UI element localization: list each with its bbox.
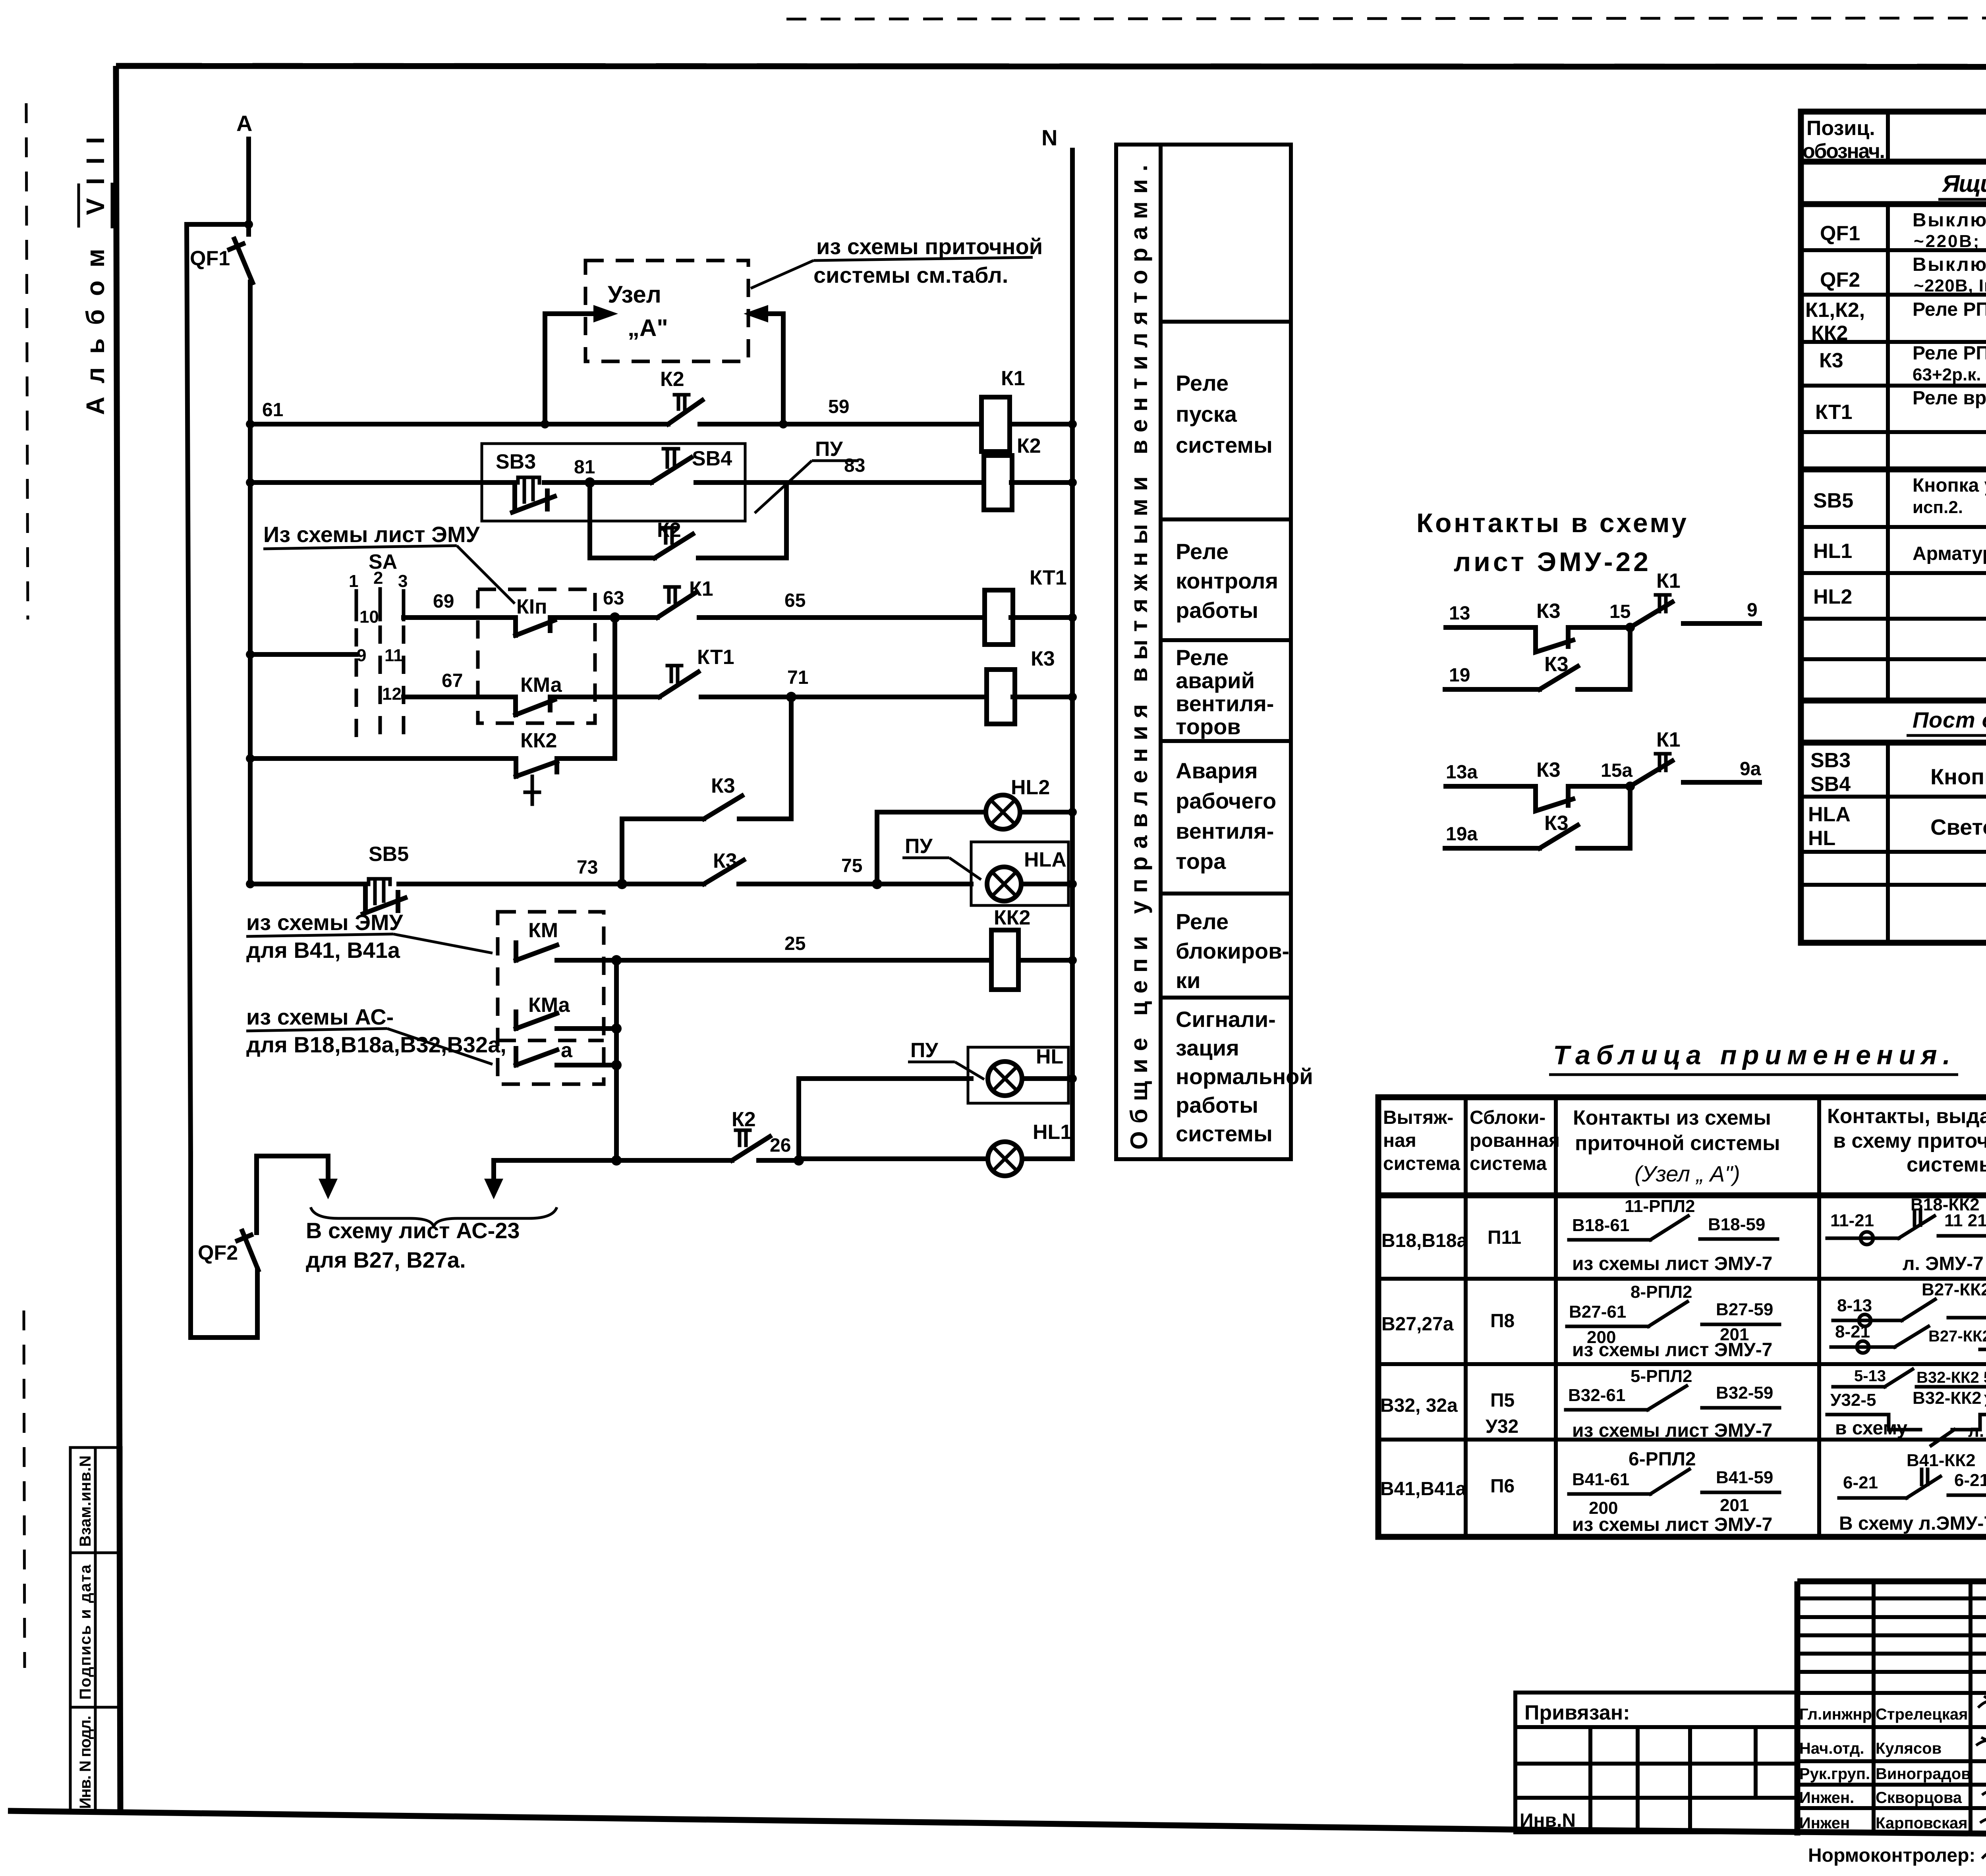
wire K3 bypass from node 71 (622, 697, 791, 884)
svg-text:К3: К3 (1536, 759, 1561, 782)
svg-text:л. ЭМУ-17: л. ЭМУ-17 (1968, 1421, 1986, 1441)
svg-text:Реле РП-256 , ~220В: Реле РП-256 , ~220В (1913, 299, 1986, 320)
relay coil K3 (987, 647, 1055, 724)
svg-text:К1,К2,: К1,К2, (1805, 299, 1865, 322)
svg-text:12: 12 (382, 684, 402, 704)
wire 9a (1683, 780, 1760, 785)
arrow down AC-23 left (319, 1179, 338, 1199)
svg-text:обознач.: обознач. (1802, 140, 1885, 163)
svg-text:блокиров-: блокиров- (1176, 938, 1289, 963)
contact K2 NO on row1 (660, 368, 702, 424)
contact KT1 NO row4 (659, 646, 734, 697)
wire phase A vertical (246, 139, 251, 234)
contact K1 NO row3 (657, 577, 713, 618)
svg-text:Реле: Реле (1176, 909, 1229, 934)
svg-text:исп.2.: исп.2. (1913, 498, 1963, 517)
contact a (516, 1039, 622, 1070)
svg-text:НLА: НLА (1808, 803, 1851, 826)
svg-text:Инжен: Инжен (1799, 1814, 1850, 1832)
svg-text:из схемы приточной: из схемы приточной (816, 234, 1043, 259)
contact KMa (516, 674, 562, 715)
svg-text:Скворцова: Скворцова (1876, 1789, 1962, 1807)
pushbutton SB5 NC (363, 843, 409, 914)
box rele avariy (1176, 645, 1274, 739)
wire row1 59 (246, 396, 1077, 428)
box KM dashed (498, 912, 604, 1084)
svg-text:Контакты, выдаваемые: Контакты, выдаваемые (1827, 1105, 1986, 1128)
wire QF2 to arrow (257, 1156, 328, 1233)
outer and main lines (1797, 1581, 1986, 1837)
svg-text:Привязан:: Привязан: (1524, 1701, 1630, 1724)
wire row3 69 (404, 588, 1077, 623)
svg-text:НL1: НL1 (1033, 1121, 1072, 1144)
svg-text:Ящик 18ЯВ (27ЯВ; 32ЯВ; 41ЯВ).: Ящик 18ЯВ (27ЯВ; 32ЯВ; 41ЯВ). (1942, 170, 1986, 197)
svg-text:В32, 32а: В32, 32а (1380, 1395, 1458, 1416)
wire 19 branch (1445, 687, 1540, 692)
box PU HLA (971, 842, 1068, 905)
lamp HLA (987, 848, 1077, 901)
svg-text:QF1: QF1 (1820, 222, 1860, 245)
svg-text:10: 10 (359, 607, 379, 627)
contact K2 NO row26 (732, 1108, 770, 1160)
privyazan box (1515, 1693, 1797, 1832)
box rele blokirovki (1176, 909, 1289, 993)
box PU HL (968, 1047, 1068, 1103)
svg-text:из схемы АС-: из схемы АС- (246, 1004, 394, 1029)
svg-text:Светосигнальная арматура: Светосигнальная арматура (1930, 814, 1986, 840)
svg-text:QF1: QF1 (190, 247, 230, 270)
svg-text:П6: П6 (1490, 1476, 1515, 1497)
box KP dashed (478, 589, 595, 723)
pushbutton SB3 NC (496, 450, 590, 512)
wire 13a (1446, 784, 1536, 789)
svg-text:рабочего: рабочего (1176, 788, 1276, 813)
main frame top (116, 66, 1986, 67)
svg-text:13а: 13а (1446, 762, 1478, 783)
svg-text:Кнопка управления КЕ-011УЗ: Кнопка управления КЕ-011УЗ (1913, 475, 1986, 496)
svg-text:201: 201 (1720, 1496, 1749, 1515)
contact KMa row (516, 994, 622, 1034)
svg-text:тора: тора (1176, 849, 1226, 874)
svg-text:системы: системы (1176, 432, 1273, 457)
contact K3 NO row73 (704, 849, 744, 884)
row B41 (1380, 1449, 1986, 1535)
svg-text:К2: К2 (732, 1108, 756, 1131)
svg-text:1: 1 (349, 571, 358, 591)
switch SA terminals (349, 550, 408, 741)
svg-text:рованная: рованная (1470, 1130, 1560, 1151)
svg-text:Инв.N: Инв.N (1520, 1810, 1576, 1831)
svg-text:65: 65 (784, 590, 806, 611)
svg-text:Реле РПУ1-362,: Реле РПУ1-362, (1913, 343, 1986, 364)
note iz shemy list EMU (263, 522, 515, 604)
svg-text:л. ЭМУ-7: л. ЭМУ-7 (1903, 1253, 1984, 1274)
svg-text:SВ4: SВ4 (1810, 773, 1851, 796)
svg-text:К1: К1 (1656, 569, 1681, 593)
svg-text:НL: НL (1808, 827, 1835, 850)
svg-text:приточной системы: приточной системы (1575, 1132, 1780, 1155)
svg-text:НL2: НL2 (1011, 776, 1050, 799)
svg-text:SВ5: SВ5 (1813, 489, 1853, 512)
APPTABLE (1378, 1040, 1986, 1537)
svg-text:В18-61: В18-61 (1572, 1216, 1629, 1235)
svg-text:аварий: аварий (1176, 668, 1255, 693)
EMU22 (1416, 508, 1761, 848)
svg-text:К3: К3 (1819, 349, 1843, 372)
svg-text:ПУ: ПУ (905, 835, 933, 858)
svg-text:Вытяж-: Вытяж- (1383, 1107, 1453, 1128)
svg-text:Контакты в схему: Контакты в схему (1416, 508, 1687, 538)
svg-text:а: а (561, 1039, 573, 1062)
svg-text:8-13: 8-13 (1837, 1296, 1872, 1315)
label PU leader HLA (902, 835, 981, 880)
svg-text:Позиц.: Позиц. (1806, 117, 1875, 140)
svg-text:В32-61: В32-61 (1568, 1386, 1625, 1405)
svg-text:пуска: пуска (1176, 401, 1237, 427)
svg-text:Кнопка управления: Кнопка управления (1930, 764, 1986, 789)
COLUMN (1116, 145, 1313, 1159)
svg-text:SВ4: SВ4 (692, 447, 732, 470)
box rele puska (1176, 371, 1273, 457)
note iz shemy AC (246, 1004, 506, 1064)
wire row26 to HL1 (799, 1156, 988, 1161)
svg-text:системы: системы (1176, 1121, 1273, 1146)
svg-text:~220В, Iн.р.=0.63; Iотс.=1.3Iн: ~220В, Iн.р.=0.63; Iотс.=1.3Iн ТУ16.522.… (1914, 276, 1986, 295)
svg-text:13: 13 (1449, 603, 1470, 624)
svg-text:для В18,В18а,В32,В32а,: для В18,В18а,В32,В32а, (246, 1032, 506, 1057)
wire bus to SA (246, 650, 356, 659)
relay coil K2 (984, 434, 1041, 510)
svg-text:QF2: QF2 (198, 1241, 238, 1264)
svg-text:Выключатель автоматический А63: Выключатель автоматический А63-МУЗ (1913, 210, 1986, 231)
svg-text:8-РПЛ2: 8-РПЛ2 (1631, 1282, 1692, 1302)
wire bus left vertical (248, 282, 253, 884)
svg-text:из схемы лист ЭМУ-7: из схемы лист ЭМУ-7 (1572, 1339, 1772, 1361)
svg-text:вентиля-: вентиля- (1176, 818, 1274, 843)
svg-text:Подпись и дата: Подпись и дата (77, 1564, 94, 1700)
svg-text:Взам.инв.N: Взам.инв.N (77, 1455, 94, 1547)
svg-text:система: система (1470, 1153, 1547, 1174)
svg-text:для В41, В41а: для В41, В41а (246, 938, 400, 963)
bottom border (8, 1811, 1513, 1830)
brace (311, 1207, 557, 1227)
svg-text:„А": „А" (628, 315, 668, 341)
svg-text:QF2: QF2 (1820, 268, 1860, 291)
svg-text:В18,В18а: В18,В18а (1381, 1230, 1467, 1251)
paper edge dashed top (786, 17, 1986, 19)
svg-text:6-21: 6-21 (1843, 1473, 1878, 1492)
svg-text:ная: ная (1383, 1130, 1416, 1151)
svg-text:15а: 15а (1601, 760, 1632, 781)
breaker QF2 (198, 1231, 258, 1270)
wire row26 (494, 1135, 804, 1166)
svg-text:П11: П11 (1488, 1227, 1521, 1248)
wire K2 bypass (590, 483, 786, 558)
wire 19a branch (1445, 846, 1540, 851)
svg-text:Узел: Узел (608, 281, 661, 308)
svg-text:11-РПЛ2: 11-РПЛ2 (1625, 1197, 1695, 1216)
svg-text:П5: П5 (1490, 1390, 1515, 1411)
svg-text:19а: 19а (1446, 824, 1478, 845)
row B18 (1381, 1195, 1986, 1274)
svg-text:из схемы лист ЭМУ-7: из схемы лист ЭМУ-7 (1572, 1514, 1772, 1535)
svg-text:Сблоки-: Сблоки- (1470, 1107, 1546, 1128)
svg-text:Сигнали-: Сигнали- (1176, 1007, 1276, 1032)
svg-text:Реле: Реле (1176, 371, 1229, 396)
svg-text:В27,27а: В27,27а (1381, 1314, 1454, 1335)
svg-text:73: 73 (577, 857, 598, 878)
svg-text:5-РПЛ2: 5-РПЛ2 (1631, 1366, 1692, 1386)
svg-text:У32: У32 (1486, 1416, 1518, 1437)
svg-text:К1: К1 (1656, 728, 1681, 751)
signatures table (1797, 1581, 1986, 1835)
wire into Uzel A right with arrow (767, 314, 783, 424)
box avariya rabochego (1176, 758, 1276, 874)
box PU around SB3 SB4 (482, 444, 745, 521)
node Uzel A dashed box (585, 261, 748, 361)
svg-text:15: 15 (1609, 601, 1631, 622)
svg-text:26: 26 (770, 1135, 791, 1156)
svg-text:25: 25 (784, 933, 806, 954)
wire HL branch (799, 1079, 971, 1160)
svg-text:В41-КК2: В41-КК2 (1907, 1451, 1976, 1470)
svg-text:КТ1: КТ1 (697, 646, 734, 669)
svg-text:SВ3: SВ3 (496, 450, 536, 473)
relay coil KT1 (985, 566, 1067, 645)
svg-text:SВ5: SВ5 (369, 843, 409, 866)
svg-text:вентиля-: вентиля- (1176, 691, 1274, 716)
svg-text:В схему лист АС-23: В схему лист АС-23 (306, 1218, 520, 1243)
svg-text:61: 61 (262, 400, 283, 421)
svg-text:SВ3: SВ3 (1810, 749, 1851, 772)
svg-text:Кулясов: Кулясов (1876, 1740, 1942, 1757)
svg-text:система: система (1383, 1153, 1460, 1174)
svg-text:6-21-1: 6-21-1 (1954, 1471, 1986, 1490)
wire N bus (1041, 125, 1072, 1159)
contact KIp (516, 595, 554, 635)
label PU leader HL (908, 1039, 984, 1079)
lamp HL (988, 1045, 1077, 1096)
svg-text:8-21: 8-21 (1835, 1322, 1870, 1341)
wire to node 15 (1568, 625, 1630, 630)
box signalizaciya (1176, 1007, 1313, 1146)
relay coil K1 (981, 367, 1025, 452)
svg-text:в схему приточной: в схему приточной (1833, 1129, 1986, 1152)
svg-text:Пост дистанционного управлени: Пост дистанционного управления В-ПУ (1913, 707, 1986, 732)
svg-text:В41-61: В41-61 (1572, 1470, 1629, 1489)
breaker QF1 (190, 239, 253, 283)
svg-text:В схему л.ЭМУ-7: В схему л.ЭМУ-7 (1839, 1513, 1986, 1534)
svg-text:Выключатель автоматический А63: Выключатель автоматический А63-МУЗ (1913, 254, 1986, 275)
wire row25 (246, 910, 1077, 965)
wire row5 KK2 (246, 618, 615, 763)
svg-text:В32-КК2: В32-КК2 (1913, 1388, 1982, 1408)
wire QF2 loop (191, 1154, 257, 1338)
contact K2 NO bypass (655, 519, 693, 558)
svg-text:КК2: КК2 (520, 729, 557, 752)
wire 13 (1446, 625, 1536, 630)
svg-text:ПУ: ПУ (910, 1039, 938, 1062)
svg-text:В27-КК2: В27-КК2 (1928, 1328, 1986, 1345)
BIGTABLE (1801, 112, 1986, 943)
wire into Uzel A left with arrow (545, 314, 595, 424)
svg-text:для В27, В27а.: для В27, В27а. (306, 1247, 466, 1272)
svg-text:N: N (1041, 125, 1057, 150)
svg-text:В41-59: В41-59 (1716, 1468, 1773, 1487)
svg-text:71: 71 (787, 667, 808, 688)
grid (1378, 1097, 1986, 1537)
svg-text:контроля: контроля (1176, 568, 1278, 593)
svg-text:из схемы лист ЭМУ-7: из схемы лист ЭМУ-7 (1572, 1420, 1772, 1441)
svg-text:Авария: Авария (1176, 758, 1258, 783)
svg-text:В41,В41а: В41,В41а (1380, 1478, 1466, 1500)
svg-text:зация: зация (1176, 1035, 1239, 1060)
svg-text:9а: 9а (1740, 759, 1761, 780)
contact KK2 thermal (516, 729, 557, 804)
svg-text:У32-9: У32-9 (1984, 1391, 1986, 1411)
svg-text:К2: К2 (657, 519, 681, 542)
label PU leader (755, 438, 859, 513)
svg-text:КК2: КК2 (1811, 322, 1848, 345)
svg-text:Арматура сигнальной лампы: Арматура сигнальной лампы (1913, 543, 1986, 564)
svg-text:К2: К2 (1017, 434, 1041, 457)
paper edge dash left (26, 103, 28, 620)
wire 9 (1683, 621, 1760, 626)
svg-text:63: 63 (603, 588, 624, 609)
svg-text:5-13: 5-13 (1854, 1367, 1886, 1385)
svg-text:11: 11 (384, 646, 403, 665)
TITLEBLOCK (1515, 1581, 1986, 1866)
svg-text:КМа: КМа (528, 994, 570, 1017)
svg-text:Реле: Реле (1176, 539, 1229, 564)
svg-text:Нормоконтролер:: Нормоконтролер: (1808, 1845, 1975, 1866)
svg-text:К3: К3 (1031, 647, 1055, 670)
svg-text:11-21: 11-21 (1830, 1211, 1874, 1230)
svg-text:работы: работы (1176, 598, 1258, 623)
svg-text:Рук.груп.: Рук.груп. (1799, 1765, 1870, 1783)
wire row4 67/71 (404, 667, 1077, 702)
group contacts 2 (1445, 728, 1761, 848)
svg-text:69: 69 (433, 591, 454, 612)
row B27 (1381, 1277, 1986, 1361)
svg-text:КТ1: КТ1 (1815, 401, 1853, 424)
box rele kontrolya (1176, 539, 1278, 623)
svg-text:Контакты из схемы: Контакты из схемы (1573, 1106, 1771, 1129)
svg-text:В32-КК2 5-14 л.ЭМУ-: В32-КК2 5-14 л.ЭМУ- (1916, 1369, 1986, 1386)
svg-text:К1: К1 (1001, 367, 1025, 390)
svg-text:Реле: Реле (1176, 645, 1229, 670)
lamp HL1 (988, 1121, 1072, 1176)
svg-text:Инв. N подл.: Инв. N подл. (77, 1716, 94, 1809)
svg-text:системы.: системы. (1907, 1153, 1986, 1176)
svg-text:В27-61: В27-61 (1569, 1302, 1626, 1322)
note iz shemy pritochnoy (751, 234, 1043, 288)
svg-text:9: 9 (1747, 600, 1758, 621)
svg-text:КК2: КК2 (994, 906, 1030, 929)
signature squiggles (1978, 1696, 1986, 1709)
main frame left (116, 66, 120, 1813)
svg-text:Карповская: Карповская (1876, 1814, 1968, 1832)
svg-text:В27-КК2: В27-КК2 (1922, 1280, 1986, 1299)
svg-text:НLА: НLА (1024, 848, 1066, 871)
svg-text:83: 83 (844, 455, 865, 476)
svg-text:81: 81 (574, 457, 595, 478)
wire row73 (246, 855, 971, 889)
svg-text:лист ЭМУ-22: лист ЭМУ-22 (1454, 547, 1648, 577)
svg-text:П8: П8 (1490, 1310, 1515, 1332)
bottom-left stamp table (70, 1448, 121, 1813)
svg-text:НL: НL (1036, 1045, 1063, 1068)
svg-text:К3: К3 (1536, 600, 1561, 623)
contact KM (516, 919, 558, 960)
svg-text:Нач.отд.: Нач.отд. (1799, 1740, 1864, 1757)
svg-text:63+2р.к.: 63+2р.к. (1913, 365, 1981, 384)
svg-text:59: 59 (828, 396, 849, 417)
column outline (1116, 145, 1291, 1159)
svg-text:Инжен.: Инжен. (1799, 1789, 1854, 1807)
svg-text:11 21-1: 11 21-1 (1944, 1211, 1986, 1230)
svg-text:из схемы лист ЭМУ-7: из схемы лист ЭМУ-7 (1572, 1253, 1772, 1274)
svg-text:У32-5: У32-5 (1830, 1390, 1876, 1410)
svg-text:67: 67 (442, 670, 463, 691)
group contacts 1 (1445, 569, 1760, 689)
svg-text:A: A (236, 111, 252, 136)
svg-text:Общие цепи управления вытяжным: Общие цепи управления вытяжными вентилят… (1126, 165, 1152, 1150)
svg-text:работы: работы (1176, 1092, 1258, 1117)
svg-text:НL2: НL2 (1813, 585, 1852, 608)
svg-text:К2: К2 (660, 368, 684, 391)
svg-text:в схему: в схему (1835, 1418, 1907, 1439)
wire row2 81/83 (246, 455, 1077, 488)
thermal heater KK2 (991, 906, 1030, 990)
pushbutton SB4 NO (651, 447, 732, 483)
svg-text:системы см.табл.: системы см.табл. (813, 262, 1008, 288)
svg-text:(Узел „ А"): (Узел „ А") (1634, 1161, 1740, 1186)
svg-text:В18-59: В18-59 (1708, 1215, 1765, 1234)
svg-text:из схемы ЭМУ: из схемы ЭМУ (246, 910, 404, 935)
svg-text:ки: ки (1176, 968, 1200, 993)
svg-text:3: 3 (398, 571, 408, 591)
wire vertical junction 1552 (614, 960, 619, 1160)
svg-text:НL1: НL1 (1813, 540, 1852, 563)
svg-text:КМ: КМ (528, 919, 558, 942)
svg-text:19: 19 (1449, 665, 1470, 686)
svg-text:нормальной: нормальной (1176, 1064, 1313, 1089)
svg-text:К3: К3 (711, 774, 735, 797)
arrow down AC-23 right (491, 1160, 496, 1191)
svg-text:КМа: КМа (520, 674, 562, 697)
svg-text:КТ1: КТ1 (1030, 566, 1067, 589)
svg-text:Виноградов: Виноградов (1876, 1765, 1971, 1783)
svg-text:КIп: КIп (516, 595, 547, 618)
svg-text:2: 2 (373, 568, 383, 588)
svg-text:торов: торов (1176, 714, 1241, 739)
svg-text:75: 75 (841, 855, 862, 876)
headers (1383, 1102, 1986, 1191)
wire HL2 branch (877, 808, 1077, 884)
wire to node 15a (1568, 784, 1630, 789)
svg-text:Стрелецкая: Стрелецкая (1876, 1706, 1968, 1723)
lamp HL2 (986, 776, 1050, 829)
svg-text:Реле времени РВП72-3121, ~22: Реле времени РВП72-3121, ~220В (1913, 388, 1986, 409)
svg-text:Гл.инжнр: Гл.инжнр (1799, 1706, 1872, 1723)
row B32 (1380, 1365, 1986, 1446)
svg-text:В27-59: В27-59 (1716, 1300, 1773, 1319)
svg-text:В32-59: В32-59 (1716, 1383, 1773, 1403)
svg-text:Из схемы лист ЭМУ: Из схемы лист ЭМУ (263, 522, 480, 547)
svg-text:6-РПЛ2: 6-РПЛ2 (1629, 1449, 1696, 1470)
svg-text:ПУ: ПУ (815, 438, 843, 461)
